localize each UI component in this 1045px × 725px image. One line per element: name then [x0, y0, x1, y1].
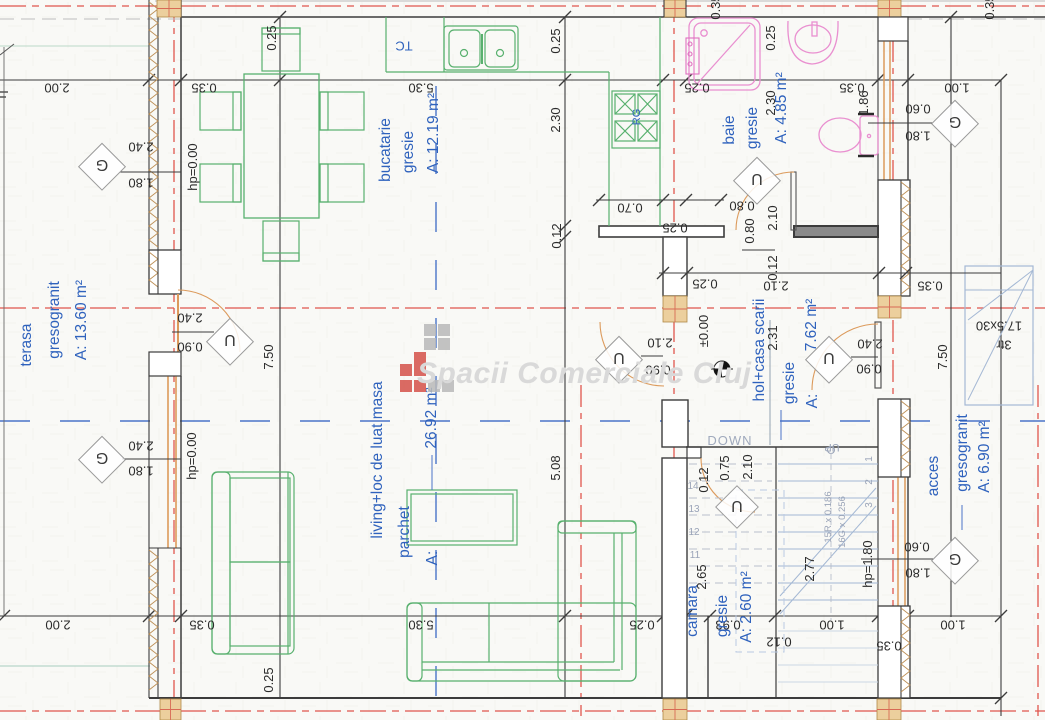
svg-text:A: 12.19 m²: A: 12.19 m²	[425, 93, 442, 173]
teal terrace top line	[0, 45, 149, 47]
svg-text:0.35: 0.35	[917, 278, 942, 293]
tick x4 y616	[0, 610, 10, 622]
interior wall stem	[663, 237, 687, 296]
tick y80 x149	[143, 74, 155, 86]
red axis line vertical right wall	[892, 0, 894, 720]
svg-text:G: G	[96, 156, 108, 173]
kitchen divider 2	[443, 17, 445, 72]
svg-text:17.5x30: 17.5x30	[976, 318, 1022, 333]
tick y616 x565	[559, 610, 571, 622]
stair path dashed	[830, 453, 832, 620]
svg-text:0.35: 0.35	[191, 80, 216, 95]
entrance door arc	[812, 324, 878, 390]
svg-text:terasa: terasa	[18, 323, 35, 366]
center top column stubs	[663, 0, 665, 17]
svg-text:gresogranit: gresogranit	[46, 281, 63, 359]
right wall mid block	[878, 180, 910, 296]
tick y616 x663	[657, 610, 669, 622]
dim stub entry U	[851, 356, 878, 358]
right wall bottom column	[877, 699, 901, 720]
svg-text:gresie: gresie	[400, 131, 417, 173]
svg-text:3: 3	[864, 502, 875, 508]
right wall mid column	[878, 296, 901, 318]
svg-text:0.35: 0.35	[708, 0, 723, 20]
svg-text:DOWN: DOWN	[707, 433, 752, 448]
center top column	[664, 0, 686, 17]
svg-text:gresogranit: gresogranit	[954, 414, 971, 492]
label leader acces	[961, 505, 963, 530]
left wall sill block	[149, 352, 181, 376]
bath door arc	[736, 172, 794, 230]
window tag G bath	[932, 100, 979, 147]
svg-text:1.80: 1.80	[128, 175, 153, 190]
scan mark left edge	[0, 92, 8, 97]
svg-text:2: 2	[864, 479, 875, 485]
svg-text:2.40: 2.40	[128, 139, 153, 154]
tick y80 x908	[902, 74, 914, 86]
kitchen counter right edge	[608, 72, 610, 226]
dining chair top	[262, 28, 300, 71]
svg-text:2.00: 2.00	[44, 80, 69, 95]
svg-text:±0.00: ±0.00	[696, 315, 711, 347]
tick y616 x686	[680, 610, 692, 622]
svg-text:0.12: 0.12	[549, 223, 564, 248]
dining table	[244, 74, 319, 218]
terrace outline line left	[3, 47, 5, 616]
entry steps box	[965, 266, 1033, 405]
svg-text:0.70: 0.70	[617, 200, 642, 215]
svg-text:1: 1	[864, 456, 875, 462]
label leader hol	[780, 410, 782, 440]
living-camara wall column	[663, 699, 687, 720]
right acces window	[878, 477, 908, 606]
grid line vertical x1001	[1000, 80, 1002, 716]
red axis line vertical left wall	[173, 0, 175, 720]
svg-text:11: 11	[690, 550, 701, 561]
tick y80 x686	[680, 74, 692, 86]
blue axis line horizontal middle	[0, 420, 1045, 422]
svg-text:hp=0.00: hp=0.00	[185, 143, 200, 190]
kitchen divider TC	[385, 17, 387, 72]
svg-text:26.92 m²: 26.92 m²	[423, 387, 440, 448]
svg-text:acces: acces	[925, 456, 942, 497]
dim stub acces G	[861, 558, 933, 560]
door tag U hall	[596, 336, 643, 383]
svg-text:0.12: 0.12	[766, 634, 791, 649]
svg-text:0.25: 0.25	[662, 220, 687, 235]
terrace door arc	[178, 290, 240, 352]
svg-text:0.35: 0.35	[982, 0, 997, 20]
interior wall bar left	[599, 226, 724, 237]
camara door stub	[687, 447, 701, 458]
svg-text:0.12: 0.12	[765, 255, 780, 280]
svg-text:5.30: 5.30	[408, 617, 433, 632]
living-camara wall	[662, 458, 687, 698]
bottom wall line	[149, 697, 1001, 699]
tick y616 x775	[769, 610, 781, 622]
tick x1001 y698	[995, 692, 1007, 704]
left window G240	[149, 376, 181, 548]
svg-text:2.10: 2.10	[740, 454, 755, 479]
svg-text:gresie: gresie	[781, 362, 798, 404]
tick y80 x878	[872, 74, 884, 86]
interior wall bar right	[794, 226, 878, 237]
svg-text:2.40: 2.40	[128, 438, 153, 453]
stair top edge	[686, 446, 878, 448]
dim stub terrace U	[172, 331, 214, 333]
blue axis line vertical living	[435, 86, 437, 710]
svg-text:U: U	[751, 170, 763, 187]
stair flight divider	[775, 447, 777, 698]
svg-text:U: U	[823, 349, 835, 366]
door tag U camara	[716, 486, 758, 528]
svg-text:0.12: 0.12	[696, 467, 711, 492]
svg-text:G: G	[949, 550, 961, 567]
svg-text:0.25: 0.25	[261, 667, 276, 692]
dim stub left G bottom	[122, 458, 181, 460]
svg-text:15R x 0.186: 15R x 0.186	[823, 491, 834, 542]
camara door arc	[701, 458, 755, 512]
grid line vertical x280	[279, 17, 281, 698]
entrance door leaf	[875, 322, 881, 388]
svg-text:0.25: 0.25	[548, 28, 563, 53]
svg-text:7.62 m²: 7.62 m²	[803, 299, 820, 352]
right wall bottom segment	[878, 606, 910, 698]
window tag G acces	[932, 537, 979, 584]
svg-text:bucatarie: bucatarie	[377, 118, 394, 182]
dim line 0.70	[596, 199, 724, 201]
stair break line	[780, 488, 876, 614]
door tag U entry	[806, 336, 853, 383]
kitchen counter front edge	[386, 71, 609, 73]
toilet	[819, 114, 878, 156]
tick y616 x149	[143, 610, 155, 622]
svg-text:baie: baie	[721, 115, 738, 144]
svg-text:hol+casa scarii: hol+casa scarii	[751, 299, 768, 402]
right wall top block	[878, 17, 908, 41]
svg-text:1.00: 1.00	[940, 617, 965, 632]
svg-text:living+loc de luat masa: living+loc de luat masa	[369, 381, 386, 539]
tick y616 x878	[872, 610, 884, 622]
svg-text:0.80: 0.80	[729, 198, 754, 213]
bath sink	[788, 21, 838, 64]
svg-text:0.80: 0.80	[742, 218, 757, 243]
window tag G left top	[79, 143, 126, 190]
left wall top column	[157, 0, 181, 17]
svg-text:2.40: 2.40	[177, 310, 202, 325]
red axis line horizontal middle	[0, 307, 1045, 309]
coffee table	[407, 490, 517, 545]
svg-text:1.80: 1.80	[128, 463, 153, 478]
svg-text:2.30: 2.30	[548, 107, 563, 132]
tick x565 y17	[559, 11, 571, 23]
svg-text:7.50: 7.50	[935, 344, 950, 369]
bath door leaf	[791, 172, 796, 230]
svg-text:3tr: 3tr	[996, 337, 1012, 352]
svg-text:0.90: 0.90	[177, 339, 202, 354]
svg-text:0.25: 0.25	[629, 617, 654, 632]
tick x565 y226	[559, 220, 571, 232]
label leader living	[431, 455, 433, 490]
red axis line vertical far right	[1037, 385, 1039, 716]
svg-text:2.77: 2.77	[802, 556, 817, 581]
svg-text:0.35: 0.35	[876, 638, 901, 653]
dining chair right low	[320, 164, 364, 202]
stair up circle	[828, 447, 835, 454]
svg-text:hp=1.80: hp=1.80	[860, 540, 875, 587]
tick y80 x181	[175, 74, 187, 86]
svg-text:12: 12	[688, 527, 700, 538]
red axis line vertical center wall	[673, 0, 675, 720]
stair dim line 2.31	[769, 320, 771, 445]
svg-text:2.40: 2.40	[857, 336, 882, 351]
svg-text:0.75: 0.75	[717, 455, 732, 480]
svg-text:5.08: 5.08	[548, 455, 563, 480]
red axis line horizontal bottom	[0, 710, 1045, 712]
window tag G left bottom	[79, 436, 126, 483]
svg-text:hp=0.00: hp=0.00	[184, 432, 199, 479]
terrace corner tick	[0, 44, 14, 55]
svg-text:A: 4.85 m²: A: 4.85 m²	[773, 72, 790, 144]
grey top scan edge	[155, 0, 1045, 2]
grid line vertical x951	[950, 17, 952, 617]
svg-text:camara: camara	[684, 585, 701, 637]
washing machine	[686, 38, 699, 74]
tick y80 x663	[657, 74, 669, 86]
svg-text:0.25: 0.25	[692, 276, 717, 291]
camara inner wall	[707, 616, 709, 698]
dining chair left up	[200, 92, 241, 130]
tick y616 x181	[175, 610, 187, 622]
left wall upper segment	[149, 0, 181, 250]
svg-text:RG: RG	[631, 109, 643, 126]
svg-text:13: 13	[688, 504, 700, 515]
door tag U bath	[734, 157, 781, 204]
dim stub bath door U	[742, 249, 775, 251]
tick x951 y17	[945, 11, 957, 23]
svg-text:parchet: parchet	[396, 505, 413, 557]
svg-text:A: 13.60 m²: A: 13.60 m²	[73, 280, 90, 360]
dim stub hall U	[641, 355, 663, 357]
svg-text:Spacii Comerciale Cluj: Spacii Comerciale Cluj	[417, 357, 752, 390]
right bath window	[878, 41, 908, 180]
svg-text:U: U	[224, 331, 236, 348]
svg-text:1.00: 1.00	[819, 617, 844, 632]
svg-text:0.90: 0.90	[856, 361, 881, 376]
svg-text:A: 2.60 m²: A: 2.60 m²	[738, 571, 755, 643]
svg-text:2.10: 2.10	[647, 335, 672, 350]
svg-text:16G x 0.256: 16G x 0.256	[837, 496, 848, 548]
svg-text:7.50: 7.50	[261, 344, 276, 369]
svg-text:0.25: 0.25	[264, 25, 279, 50]
svg-text:2.00: 2.00	[45, 617, 70, 632]
top wall line	[181, 16, 1045, 18]
interior wall stem column	[663, 296, 687, 322]
tick x565 y237	[559, 231, 571, 243]
section symbol	[711, 361, 733, 377]
tick x280 y80	[274, 74, 286, 86]
shower	[689, 18, 760, 90]
tick y616 x1001	[995, 610, 1007, 622]
stair right flight steps	[778, 464, 878, 682]
right wall block below door	[878, 399, 910, 477]
svg-text:TC: TC	[395, 38, 412, 53]
tick y80 x1001	[995, 74, 1007, 86]
svg-text:1.00: 1.00	[944, 80, 969, 95]
svg-text:gresie: gresie	[714, 595, 731, 637]
svg-text:1.80: 1.80	[905, 128, 930, 143]
tick y616 x908	[902, 610, 914, 622]
dining chair left low	[200, 164, 241, 202]
dining chair bottom	[263, 221, 299, 261]
grid line vertical x565	[564, 17, 566, 698]
svg-text:0.35: 0.35	[189, 617, 214, 632]
terrace door leaf	[177, 294, 179, 352]
svg-text:G: G	[949, 113, 961, 130]
red axis line vertical living	[580, 385, 582, 716]
hall-living door arc	[600, 322, 664, 386]
svg-text:U: U	[731, 497, 743, 514]
sofa corner sectional	[407, 521, 636, 681]
left wall bottom column	[160, 699, 181, 720]
svg-text:G: G	[96, 449, 108, 466]
sofa left	[212, 472, 294, 654]
tick y80 x565	[559, 74, 571, 86]
red axis line horizontal top	[0, 5, 1045, 7]
kitchen stove	[612, 91, 660, 148]
dim line top y80	[0, 79, 1001, 81]
svg-text:2.10: 2.10	[765, 205, 780, 230]
left wall pier	[149, 250, 181, 294]
camara ceiling dashed outline	[736, 490, 784, 652]
stair left flight steps dashed	[689, 464, 772, 583]
svg-text:0.60: 0.60	[905, 101, 930, 116]
svg-text:1.86: 1.86	[856, 90, 871, 115]
svg-text:A:: A:	[424, 551, 441, 566]
dim stub left G top	[120, 171, 181, 173]
dining chair right up	[320, 92, 364, 130]
svg-text:0.25: 0.25	[763, 25, 778, 50]
tick y616 x710	[704, 610, 716, 622]
left wall lower segment	[149, 548, 181, 698]
door tag U terrace	[207, 318, 254, 365]
living-hall wall block	[662, 400, 688, 447]
grey roof overhang line top right	[908, 18, 1045, 20]
svg-text:1.80: 1.80	[905, 565, 930, 580]
svg-text:A: 6.90 m²: A: 6.90 m²	[976, 421, 993, 493]
right top column	[878, 0, 901, 17]
tick x280 y17	[274, 11, 286, 23]
dim line 0.25-0.35 middle	[659, 272, 1001, 274]
watermark logo	[400, 324, 454, 392]
teal terrace edge line	[0, 665, 150, 667]
dim stub bath G	[868, 122, 933, 124]
svg-text:0.60: 0.60	[904, 539, 929, 554]
dim line bottom y616	[0, 615, 1001, 617]
svg-text:A:: A:	[804, 394, 821, 409]
svg-text:gresie: gresie	[744, 107, 761, 149]
svg-text:0.25: 0.25	[684, 80, 709, 95]
grey roof overhang line top left	[0, 18, 181, 20]
kitchen sink	[444, 26, 518, 70]
